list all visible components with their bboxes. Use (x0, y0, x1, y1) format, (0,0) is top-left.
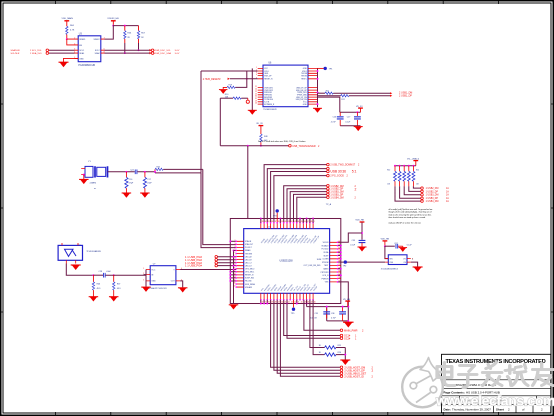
resistor R51 pack (398, 166, 401, 187)
svg-text:HDMI_DDC_SCL: HDMI_DDC_SCL (154, 50, 172, 52)
svg-text:42: 42 (291, 221, 293, 223)
resistor R54 pack (412, 166, 415, 187)
svg-text:C36: C36 (331, 313, 334, 315)
svg-text:TLV3012AIDBV: TLV3012AIDBV (86, 250, 101, 253)
svg-text:3: 3 (143, 280, 144, 282)
wire SDA bus (49, 52, 151, 54)
resistor R52 pack (403, 166, 406, 187)
capacitor C17 load (143, 172, 152, 193)
svg-text:1 USB2_DM: 1 USB2_DM (426, 188, 439, 190)
node USB_TRANSCEIVER off-page (289, 144, 320, 147)
svg-text:46: 46 (304, 221, 306, 223)
svg-text:18: 18 (307, 302, 309, 304)
svg-text:2K: 2K (127, 37, 130, 39)
svg-text:8: 8 (235, 258, 236, 260)
svg-text:HDMI_DDC_SDA: HDMI_DDC_SDA (154, 52, 172, 55)
svg-text:55: 55 (338, 271, 340, 273)
label host nets (344, 366, 373, 378)
svg-text:47: 47 (307, 221, 309, 223)
svg-text:MAIN_PWR: MAIN_PWR (344, 329, 358, 332)
capacitor C24 series (135, 169, 137, 174)
svg-text:RTERM: RTERM (322, 262, 329, 264)
ground right bus (313, 108, 322, 113)
svg-text:TP5: TP5 (291, 313, 296, 315)
svg-text:SUSP_IND: SUSP_IND (245, 278, 255, 280)
wire bypass rail bottom (307, 300, 349, 321)
svg-text:XTALOUT: XTALOUT (245, 243, 254, 246)
node R48 tap (260, 145, 262, 147)
test point TP5 (291, 300, 296, 315)
wire resistor join (344, 348, 346, 360)
svg-text:27pF: 27pF (129, 183, 134, 185)
svg-text:5: 5 (143, 268, 144, 270)
svg-text:though all of it and substanti: though all of it and substantially(s) - … (389, 211, 432, 214)
wire xtal main cont (137, 171, 155, 173)
svg-text:28: 28 (275, 302, 277, 304)
node VREF2 rail (112, 25, 114, 27)
svg-text:R26: R26 (338, 352, 341, 354)
svg-text:1 USB4_DM: 1 USB4_DM (426, 201, 439, 203)
svg-text:1K: 1K (319, 352, 322, 354)
svg-text:37: 37 (275, 221, 277, 223)
svg-text:4.7uF: 4.7uF (331, 122, 337, 124)
svg-text:OUT: OUT (171, 281, 176, 283)
svg-text:24MHZ: 24MHZ (90, 182, 97, 184)
svg-text:RBIAS: RBIAS (245, 249, 251, 252)
wire cap bottom rail (340, 125, 360, 127)
svg-text:1 USB3_DP: 1 USB3_DP (426, 198, 439, 200)
svg-text:SLIM: SLIM (317, 259, 322, 261)
svg-text:43: 43 (294, 221, 296, 223)
svg-text:LED_A#: LED_A# (245, 255, 252, 258)
svg-text:27: 27 (278, 302, 280, 304)
node SCL/SDA right off-page (150, 49, 180, 55)
ground Y1 (79, 175, 89, 185)
svg-text:SCL/5LR: SCL/5LR (11, 53, 20, 55)
wire right pins to ring (338, 246, 341, 276)
wire right lower to rail (338, 282, 349, 307)
wire osc mid (93, 274, 103, 276)
resistor R45 series (155, 166, 203, 172)
svg-text:2 PG_GOOD: 2 PG_GOOD (330, 176, 344, 178)
svg-text:1: 1 (355, 338, 357, 341)
svg-text:HS_IND: HS_IND (245, 281, 252, 283)
svg-text:VDD_HB: VDD_HB (355, 220, 364, 222)
node top fan terminals (327, 163, 330, 198)
svg-text:nc: nc (94, 188, 96, 190)
wire U7 out2 (180, 281, 183, 288)
svg-text:R46: R46 (97, 284, 100, 286)
svg-text:GND: GND (303, 104, 308, 106)
ground C16 (122, 193, 132, 198)
svg-text:IN: IN (151, 275, 154, 277)
svg-text:24: 24 (288, 302, 290, 304)
svg-text:C37: C37 (394, 243, 397, 245)
note text block (389, 208, 433, 225)
svg-text:4: 4 (256, 74, 257, 76)
wire U6 gnd column (251, 68, 253, 110)
resistor R57 pullup (137, 26, 145, 52)
power flag VDD33_HB (107, 18, 119, 26)
ground U7 out2 (178, 288, 188, 293)
svg-text:R54: R54 (416, 170, 419, 172)
resistor R56 pullup (124, 25, 132, 54)
svg-text:1: 1 (314, 221, 315, 223)
svg-text:R47: R47 (117, 284, 120, 286)
svg-text:R64: R64 (70, 25, 75, 27)
svg-text:26: 26 (255, 103, 257, 105)
label pack nets (426, 187, 450, 203)
svg-text:all x and(s) pull(?)ed that wa: all x and(s) pull(?)ed that was well. To… (389, 208, 433, 211)
svg-text:29: 29 (271, 302, 273, 304)
power flag VD_33 caps (356, 106, 363, 112)
wire suspend long row (338, 261, 386, 263)
IC U2 regulator (381, 255, 414, 271)
wire VREF2 rail (105, 26, 139, 40)
svg-text:15K: 15K (387, 183, 391, 185)
svg-text:www.elecfans.com: www.elecfans.com (435, 393, 554, 409)
svg-text:2: 2 (318, 145, 320, 148)
svg-text:23: 23 (291, 302, 293, 304)
svg-text:SDA2: SDA2 (95, 52, 100, 55)
svg-text:C28: C28 (99, 271, 102, 273)
svg-text:26: 26 (281, 302, 283, 304)
wire osc out (66, 264, 93, 276)
svg-text:RESET_N: RESET_N (245, 275, 254, 277)
wire refclk row (201, 70, 258, 72)
ground U3 (59, 58, 79, 67)
resistor R48 (260, 134, 268, 146)
resistor R50 pack (394, 166, 397, 187)
svg-text:2 USB_HOST_ID: 2 USB_HOST_ID (344, 375, 364, 378)
node USB1 off-page arrows (390, 91, 412, 97)
wire top pins to ring (290, 219, 310, 223)
svg-text:SCL1: SCL1 (79, 50, 84, 52)
power flag VIL_USB (407, 158, 420, 165)
svg-text:25: 25 (255, 93, 257, 95)
ground R46 (89, 297, 99, 302)
svg-text:EXTMEM_N: EXTMEM_N (264, 104, 275, 106)
svg-text:SDA/5LR: SDA/5LR (11, 49, 21, 52)
node cap taps (125, 171, 127, 173)
svg-text:41: 41 (288, 221, 290, 223)
wire left agnd column (233, 250, 235, 303)
pack value labels (387, 170, 420, 186)
svg-text:SDA1: SDA1 (79, 52, 84, 55)
svg-text:SUSP: SUSP (323, 255, 329, 257)
node VREF1 (66, 38, 68, 40)
watermark url text (435, 393, 554, 409)
svg-text:40: 40 (284, 221, 286, 223)
wire left lower pins to ring (230, 272, 236, 281)
svg-text:TESTC: TESTC (301, 79, 308, 81)
svg-text:1K: 1K (319, 345, 322, 347)
svg-text:OC2#: OC2# (344, 338, 351, 341)
svg-text:VO: VO (403, 258, 406, 260)
crystal Y1 (81, 161, 107, 190)
IC U1 hub (234, 221, 341, 303)
svg-text:4: 4 (235, 246, 236, 248)
svg-text:1: 1 (256, 67, 257, 69)
svg-text:VDDA18: VDDA18 (321, 244, 328, 247)
svg-text:mod at all x ensuring the spir: mod at all x ensuring the spirit up full… (389, 213, 432, 216)
svg-text:CFG_SEL0: CFG_SEL0 (245, 269, 254, 271)
svg-text:2: 2 (355, 188, 357, 192)
resistor R20 (220, 94, 249, 103)
svg-text:R25: R25 (338, 345, 341, 347)
resistor R25 (310, 300, 345, 349)
svg-text:TEST: TEST (324, 265, 329, 267)
svg-text:R22: R22 (341, 99, 344, 101)
svg-text:PLLVDD: PLLVDD (322, 249, 330, 251)
svg-text:U6: U6 (268, 62, 272, 64)
ground U7 vcc (141, 287, 151, 292)
svg-text:SCL2: SCL2 (95, 50, 100, 52)
svg-text:2: 2 (372, 369, 374, 373)
svg-text:C35: C35 (315, 313, 318, 315)
wire transceiver row (220, 145, 288, 147)
svg-text:57: 57 (338, 264, 340, 266)
wire pwr good row (304, 300, 340, 331)
svg-text:TP_A: TP_A (326, 203, 332, 206)
svg-text:44: 44 (298, 221, 300, 223)
svg-text:C26: C26 (333, 117, 336, 119)
svg-text:TESTB: TESTB (301, 75, 308, 77)
svg-text:1A: 1A (446, 197, 449, 200)
svg-text:VDDA: VDDA (323, 251, 329, 254)
svg-text:20: 20 (301, 302, 303, 304)
svg-text:USB 30:36: USB 30:36 (330, 170, 346, 174)
svg-text:TESTEN: TESTEN (245, 253, 253, 255)
svg-text:R57: R57 (141, 32, 146, 34)
svg-text:EN: EN (79, 45, 82, 47)
svg-text:21: 21 (298, 302, 300, 304)
wire U7 out to hub (180, 269, 236, 271)
svg-text:2: 2 (355, 196, 357, 199)
svg-text:R21: R21 (326, 91, 329, 93)
svg-text:2: 2 (372, 375, 374, 378)
svg-text:35: 35 (268, 221, 270, 223)
发 (483, 363, 502, 386)
svg-text:2 SCL_5V0: 2 SCL_5V0 (30, 50, 42, 52)
svg-text:31: 31 (255, 98, 257, 100)
svg-text:1 1 USB_PG#: 1 1 USB_PG# (185, 264, 202, 268)
wire top pins ring stubs (261, 219, 313, 223)
resistor R19 (223, 84, 235, 89)
svg-text:VDD_MAIN: VDD_MAIN (62, 17, 74, 20)
capacitor C26 (331, 112, 344, 126)
svg-text:C16: C16 (129, 179, 132, 181)
svg-text:49.9: 49.9 (117, 288, 121, 290)
svg-text:VDD33_HB: VDD33_HB (107, 18, 119, 20)
test point TP1 (318, 67, 334, 71)
svg-text:0.1uF: 0.1uF (345, 122, 351, 124)
svg-text:38: 38 (278, 221, 280, 223)
svg-text:VREF1: VREF1 (79, 39, 85, 41)
svg-text:VDDA33: VDDA33 (245, 286, 252, 289)
node host terminals (340, 366, 343, 378)
svg-text:2: 2 (362, 329, 364, 332)
svg-text:R56: R56 (127, 32, 132, 34)
svg-text:2 USB_TWO_DOWNST: 2 USB_TWO_DOWNST (330, 165, 355, 167)
power ring box (230, 219, 340, 304)
svg-text:6: 6 (235, 252, 236, 254)
wire xtal lower branch (155, 172, 201, 173)
svg-text:30: 30 (255, 96, 257, 98)
svg-text:1A: 1A (446, 200, 449, 203)
wire ocs rows (284, 300, 341, 339)
svg-text:0.1uF: 0.1uF (350, 244, 356, 246)
svg-text:3: 3 (256, 72, 257, 74)
svg-text:C24: C24 (130, 169, 133, 171)
svg-text:XC6204B332MR-G: XC6204B332MR-G (381, 269, 399, 271)
IC U3 PCA9306 (74, 34, 104, 68)
wire refclk up (200, 71, 202, 173)
svg-text:17: 17 (311, 302, 313, 304)
svg-text:CLKEN: CLKEN (322, 259, 329, 261)
watermark logo circle (402, 358, 443, 408)
svg-text:NON_REM0: NON_REM0 (245, 284, 255, 286)
resistor R47 (112, 275, 120, 296)
svg-text:R50: R50 (387, 170, 390, 172)
svg-text:2 USB1_DP: 2 USB1_DP (399, 95, 412, 98)
svg-text:5.0V: 5.0V (175, 50, 180, 52)
svg-text:5:1: 5:1 (352, 170, 357, 174)
烧 (505, 365, 528, 386)
wire SCL bus (49, 49, 151, 51)
svg-text:GND: GND (79, 58, 84, 60)
svg-text:Y: Y (173, 269, 175, 271)
svg-text:RESET_N: RESET_N (264, 79, 273, 81)
wire xtal main (108, 171, 135, 173)
svg-text:16: 16 (314, 302, 316, 304)
svg-text:1A: 1A (446, 194, 449, 197)
wire cap rail (340, 111, 361, 113)
power flag VDD_HB right (355, 220, 364, 240)
node LED terms (215, 256, 218, 267)
wire LED rows to hub (218, 257, 237, 266)
node osc taps (92, 274, 94, 276)
svg-text:CFG_SEL1: CFG_SEL1 (245, 272, 254, 274)
svg-text:PUR_DP: PUR_DP (264, 75, 272, 77)
svg-text:then should come as stand up l: then should come as stand up lines x rou… (389, 216, 426, 219)
svg-text:100 CR: 100 CR (310, 318, 317, 320)
resistor R21 series (318, 91, 391, 95)
watermark hanzi strokes (hollow outline style) (437, 363, 553, 388)
svg-text:39: 39 (281, 221, 283, 223)
svg-text:PWRON: PWRON (322, 278, 330, 280)
svg-text:25: 25 (284, 302, 286, 304)
IC U6 (255, 62, 317, 111)
svg-text:R19: R19 (229, 84, 232, 86)
svg-text:early as offend? or so low: th: early as offend? or so low: the unit out… (389, 221, 422, 224)
ground R19 (219, 90, 228, 94)
svg-text:R45: R45 (157, 166, 160, 168)
svg-text:48: 48 (311, 221, 313, 223)
svg-text:4.7K: 4.7K (70, 30, 75, 32)
svg-text:2: 2 (358, 165, 360, 167)
电 (437, 363, 455, 386)
svg-text:27pF: 27pF (147, 183, 152, 185)
svg-text:.01uF: .01uF (106, 271, 112, 273)
node HUB_RESET junction (246, 78, 248, 80)
wire R20 down to transceiver row (219, 98, 221, 146)
ground C33 (358, 247, 367, 252)
svg-text:USB2512BI: USB2512BI (280, 259, 293, 262)
wire xtal bus 2 down to hub (201, 173, 236, 248)
ground bypass (343, 322, 354, 327)
svg-text:VIN: VIN (389, 258, 393, 260)
svg-text:5: 5 (412, 259, 414, 261)
svg-text:LED_D#: LED_D# (245, 265, 252, 267)
wire reg ce gnd (411, 262, 418, 267)
svg-text:TP4: TP4 (273, 215, 278, 217)
svg-text:VCC: VCC (151, 269, 156, 271)
svg-text:1 USB2_DP: 1 USB2_DP (426, 191, 439, 193)
IC U7 buffer (143, 264, 182, 290)
svg-text:29: 29 (255, 100, 257, 102)
svg-text:0.1uF: 0.1uF (407, 244, 413, 246)
svg-text:PLLFILT: PLLFILT (245, 247, 253, 249)
wire left pin k3 to column (234, 249, 237, 251)
power flag VD_HB bottom (343, 299, 351, 307)
svg-text:PCA9306DCUR: PCA9306DCUR (78, 64, 95, 67)
capacitor C27 (345, 112, 360, 126)
svg-text:LED_C#: LED_C# (245, 262, 252, 264)
ground C17 (140, 193, 150, 198)
svg-text:TUSB2036VF: TUSB2036VF (263, 109, 277, 111)
svg-text:22: 22 (255, 91, 257, 93)
svg-text:CE: CE (403, 262, 406, 264)
svg-text:1 USB4_DM: 1 USB4_DM (330, 196, 343, 199)
svg-text:33: 33 (262, 221, 264, 223)
svg-text:34: 34 (265, 221, 267, 223)
wire pack staircase (395, 186, 421, 201)
svg-text:GND: GND (151, 281, 156, 283)
svg-text:HPA289 - USB2.0 HUB Rev A: HPA289 - USB2.0 HUB Rev A (455, 383, 497, 387)
svg-text:53: 53 (338, 277, 340, 279)
svg-text:VSS: VSS (325, 282, 329, 284)
wire left pin k0 to ring (230, 240, 236, 242)
capacitor C16 load (125, 172, 134, 193)
svg-text:2 HUB_RESET#: 2 HUB_RESET# (203, 78, 221, 81)
label HUB_RESET# (203, 78, 258, 81)
svg-text:7: 7 (235, 255, 236, 257)
wire top fan bus (264, 165, 327, 223)
svg-text:GANG: GANG (323, 267, 329, 270)
wire reset feedback (235, 71, 247, 87)
svg-text:C27: C27 (347, 117, 350, 119)
svg-text:XTALIN: XTALIN (245, 240, 252, 243)
ground R47 (109, 297, 119, 302)
power flag VDD_MAIN (62, 17, 74, 26)
svg-text:TP2: TP2 (343, 266, 348, 268)
resistor R53 pack (407, 166, 410, 187)
resistor R22 series (318, 94, 391, 101)
power flag VDD_HB reg (381, 239, 390, 247)
svg-text:1 USB3_DM: 1 USB3_DM (426, 195, 439, 197)
wire right bus of U6 (317, 68, 319, 107)
capacitor C33 (350, 240, 365, 246)
capacitor C28 series (103, 273, 105, 278)
node Y1 gnd (83, 174, 85, 176)
svg-text:2 SDA_5V0: 2 SDA_5V0 (30, 52, 42, 55)
wire reg vin (385, 246, 388, 258)
ground caps (354, 127, 363, 132)
svg-text:3: 3 (235, 243, 236, 245)
wire R64 to U3 pins (67, 39, 75, 45)
capacitor C36 (331, 307, 346, 321)
